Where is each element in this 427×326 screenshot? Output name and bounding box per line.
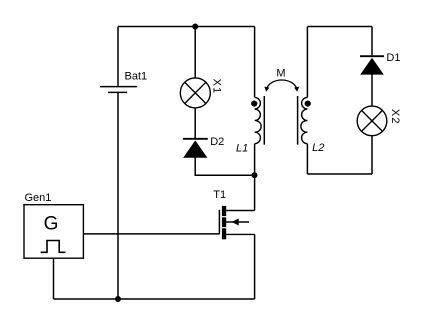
L1 core bar <box>263 96 265 145</box>
L2 polarity dot <box>305 101 311 107</box>
lamp X2 <box>357 106 387 136</box>
T1 body lead with arrow <box>226 221 249 223</box>
T1 gate plate <box>218 210 220 234</box>
wire D2 to junction <box>195 158 254 176</box>
svg-text:D2: D2 <box>210 136 224 148</box>
battery Bat1 long plate <box>100 86 137 88</box>
coupling arc M <box>267 80 297 89</box>
wire bottom rail <box>54 298 255 300</box>
wire right loop bottom <box>307 173 372 175</box>
wire Gen1 bottom pin <box>53 258 55 299</box>
L2 core bar <box>297 96 299 145</box>
T1 drain lead <box>226 210 254 212</box>
inductor L1 <box>255 97 262 143</box>
wire Gen1 output to T1 gate <box>83 233 219 235</box>
wire X1 to D2 <box>194 108 196 139</box>
wire L1 branch top <box>254 27 256 98</box>
wire T1 source down <box>254 234 256 299</box>
Gen1 pulse waveform <box>41 241 66 253</box>
wire D1 to X2 <box>371 74 373 106</box>
wire top rail left circuit <box>118 26 255 28</box>
T1 channel bars <box>222 206 226 216</box>
wire battery branch lower <box>117 92 119 299</box>
wire battery branch upper <box>117 27 119 86</box>
svg-text:L2: L2 <box>312 142 324 154</box>
node junction D2/L1/T1 drain <box>252 172 258 178</box>
coupling arrowhead right <box>294 87 299 92</box>
L1 polarity dot <box>251 101 257 107</box>
svg-text:T1: T1 <box>213 189 226 201</box>
svg-text:Bat1: Bat1 <box>125 70 148 82</box>
wire right loop top <box>307 26 372 28</box>
wire X2 to bottom corner <box>371 136 373 174</box>
coupling arrowhead left <box>264 87 269 92</box>
battery Bat1 short plate <box>108 91 127 93</box>
wire right vertical above D1 <box>371 27 373 56</box>
transistor T1 (NMOS) <box>219 206 254 239</box>
svg-text:Gen1: Gen1 <box>25 192 52 204</box>
wire X1 branch top <box>194 27 196 79</box>
node junction bottom (battery) <box>115 296 121 302</box>
svg-text:X2: X2 <box>389 109 401 125</box>
svg-text:L1: L1 <box>236 143 248 155</box>
inductor L2 <box>301 97 308 143</box>
wire L2 bottom to corner <box>306 144 308 174</box>
svg-text:D1: D1 <box>386 52 400 64</box>
svg-text:G: G <box>44 213 59 234</box>
diode D2 <box>183 139 208 158</box>
node junction top (X1 branch) <box>192 24 198 30</box>
svg-text:X1: X1 <box>210 79 222 95</box>
generator Gen1 box <box>24 205 83 259</box>
T1 source lead <box>226 233 254 235</box>
lamp X1 <box>180 78 210 108</box>
wire right loop left vertical top <box>306 27 308 98</box>
wire L1 bottom to drain corner <box>254 144 256 211</box>
diode D1 <box>360 56 384 74</box>
svg-text:M: M <box>276 67 285 79</box>
